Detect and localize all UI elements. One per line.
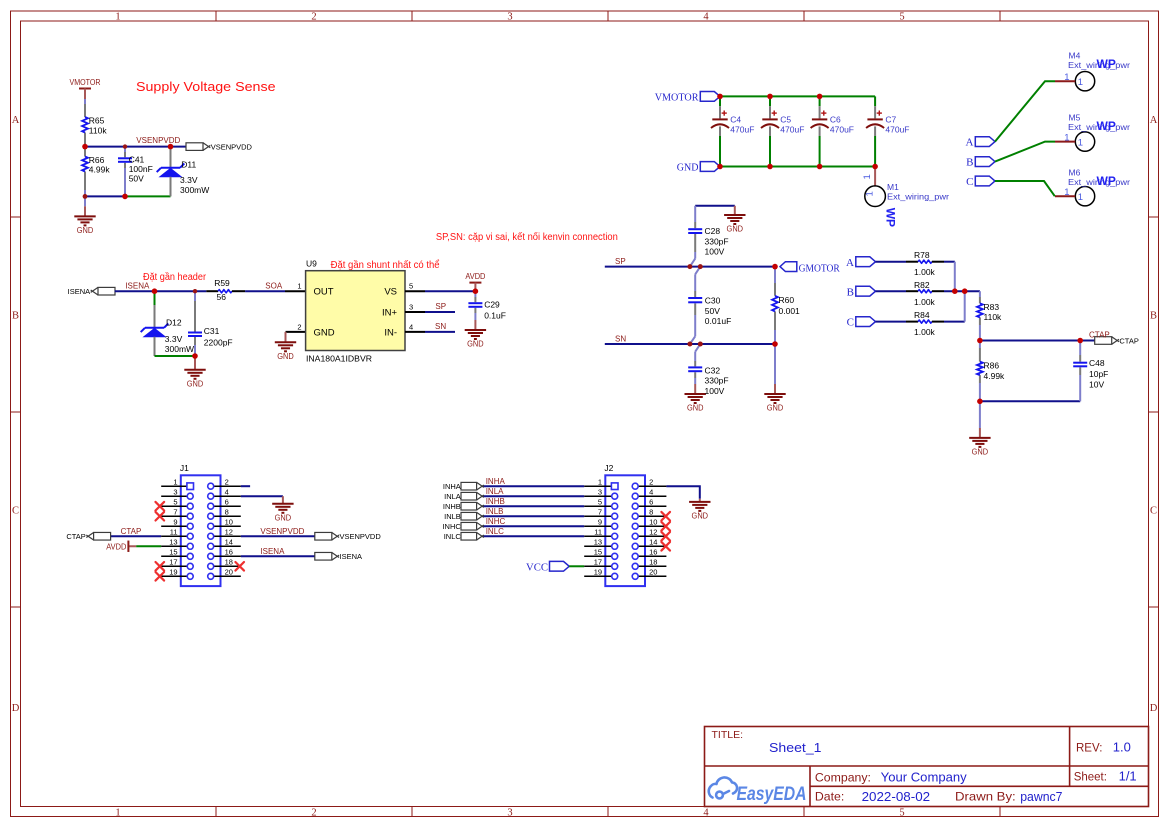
svg-text:14: 14 — [225, 537, 233, 546]
svg-text:INLB: INLB — [486, 507, 504, 516]
svg-text:1: 1 — [173, 477, 177, 486]
svg-text:10V: 10V — [1089, 379, 1104, 389]
svg-text:B: B — [966, 157, 973, 169]
svg-text:D11: D11 — [181, 160, 196, 170]
svg-text:1: 1 — [1078, 77, 1083, 88]
svg-text:ISENA: ISENA — [260, 547, 285, 556]
svg-text:19: 19 — [169, 567, 177, 576]
svg-text:INHB: INHB — [486, 497, 505, 506]
svg-text:470uF: 470uF — [885, 125, 909, 135]
svg-text:3: 3 — [598, 487, 602, 496]
svg-text:VSENPVDD: VSENPVDD — [340, 532, 382, 541]
svg-text:100V: 100V — [705, 386, 725, 396]
svg-text:330pF: 330pF — [705, 376, 729, 386]
svg-text:GND: GND — [972, 448, 989, 457]
svg-text:VCC: VCC — [526, 561, 548, 573]
svg-text:AVDD: AVDD — [465, 272, 485, 281]
svg-text:M1: M1 — [887, 182, 899, 192]
svg-text:INLC: INLC — [486, 527, 504, 536]
svg-text:C29: C29 — [484, 299, 500, 309]
svg-text:7: 7 — [598, 507, 602, 516]
svg-text:110k: 110k — [89, 125, 108, 135]
svg-text:Sheet:: Sheet: — [1074, 771, 1107, 783]
svg-text:ISENA: ISENA — [340, 552, 363, 561]
svg-text:3: 3 — [507, 807, 512, 818]
svg-text:11: 11 — [594, 527, 602, 536]
svg-text:15: 15 — [594, 547, 602, 556]
svg-text:GND: GND — [767, 404, 784, 413]
svg-text:INLC: INLC — [444, 532, 462, 541]
svg-text:R59: R59 — [214, 278, 230, 288]
svg-text:6: 6 — [225, 497, 229, 506]
svg-text:R66: R66 — [89, 155, 105, 165]
svg-text:ISENA: ISENA — [125, 282, 150, 291]
svg-text:VS: VS — [384, 287, 397, 298]
svg-text:R78: R78 — [914, 250, 930, 260]
svg-text:0.01uF: 0.01uF — [705, 316, 731, 326]
svg-text:12: 12 — [649, 527, 657, 536]
svg-text:C31: C31 — [204, 326, 220, 336]
svg-text:GND: GND — [687, 404, 704, 413]
svg-text:4: 4 — [649, 487, 653, 496]
svg-text:SP,SN: cặp vi sai, kết nối ken: SP,SN: cặp vi sai, kết nối kenvin connec… — [436, 231, 618, 243]
svg-text:INHA: INHA — [486, 477, 506, 486]
svg-text:AVDD: AVDD — [106, 543, 126, 552]
svg-text:GND: GND — [467, 340, 484, 349]
svg-text:19: 19 — [594, 567, 602, 576]
svg-text:TITLE:: TITLE: — [712, 729, 744, 741]
svg-text:4.99k: 4.99k — [89, 165, 111, 175]
svg-text:5: 5 — [409, 282, 413, 291]
svg-text:C: C — [966, 176, 973, 188]
svg-text:4: 4 — [409, 322, 413, 331]
svg-text:10: 10 — [225, 517, 233, 526]
svg-text:M6: M6 — [1069, 167, 1081, 177]
svg-text:Supply Voltage Sense: Supply Voltage Sense — [136, 79, 276, 94]
svg-text:2: 2 — [297, 322, 301, 331]
svg-text:J2: J2 — [604, 463, 613, 473]
svg-text:1: 1 — [297, 282, 301, 291]
svg-text:R83: R83 — [984, 302, 1000, 312]
svg-text:WP: WP — [884, 208, 898, 227]
svg-text:18: 18 — [649, 557, 657, 566]
svg-text:C: C — [1150, 505, 1157, 516]
svg-text:Sheet_1: Sheet_1 — [769, 741, 822, 755]
svg-text:R82: R82 — [914, 280, 930, 290]
svg-text:B: B — [12, 310, 19, 321]
svg-text:1/1: 1/1 — [1119, 768, 1137, 783]
svg-text:5: 5 — [899, 12, 904, 23]
svg-text:Ext_wiring_pwr: Ext_wiring_pwr — [887, 191, 949, 201]
svg-text:C41: C41 — [129, 154, 145, 164]
svg-text:3: 3 — [173, 487, 177, 496]
svg-text:20: 20 — [649, 567, 657, 576]
svg-text:R84: R84 — [914, 310, 930, 320]
svg-text:INLB: INLB — [444, 512, 461, 521]
svg-text:R65: R65 — [89, 116, 105, 126]
svg-text:470uF: 470uF — [730, 125, 754, 135]
svg-text:100nF: 100nF — [129, 164, 153, 174]
svg-text:3: 3 — [409, 302, 413, 311]
svg-text:1: 1 — [862, 174, 873, 179]
svg-text:5: 5 — [598, 497, 602, 506]
svg-text:2: 2 — [649, 477, 653, 486]
svg-text:M4: M4 — [1069, 51, 1081, 61]
svg-text:GND: GND — [187, 379, 204, 388]
svg-text:1.00k: 1.00k — [914, 297, 936, 307]
svg-text:ISENA: ISENA — [68, 287, 91, 296]
svg-text:WP: WP — [1097, 119, 1116, 133]
svg-text:0.1uF: 0.1uF — [484, 310, 506, 320]
svg-text:INA180A1IDBVR: INA180A1IDBVR — [306, 353, 372, 363]
svg-text:17: 17 — [169, 557, 177, 566]
svg-text:C6: C6 — [830, 114, 841, 124]
svg-text:Your Company: Your Company — [881, 771, 968, 785]
svg-text:1: 1 — [1078, 192, 1083, 203]
svg-text:SP: SP — [435, 302, 446, 311]
svg-text:WP: WP — [1097, 174, 1116, 188]
svg-text:1: 1 — [864, 191, 875, 196]
svg-text:10: 10 — [649, 517, 657, 526]
svg-text:WP: WP — [1097, 57, 1116, 71]
svg-text:1: 1 — [1078, 137, 1083, 148]
svg-text:2200pF: 2200pF — [204, 337, 233, 347]
svg-text:2: 2 — [311, 12, 316, 23]
svg-text:GND: GND — [677, 162, 699, 174]
svg-text:CTAP: CTAP — [1089, 331, 1110, 340]
svg-text:2022-08-02: 2022-08-02 — [862, 790, 931, 804]
svg-text:470uF: 470uF — [830, 125, 854, 135]
svg-text:A: A — [12, 115, 20, 126]
svg-text:U9: U9 — [306, 259, 317, 269]
svg-text:EasyEDA: EasyEDA — [737, 784, 807, 805]
svg-text:3.3V: 3.3V — [165, 334, 183, 344]
svg-text:2: 2 — [225, 477, 229, 486]
svg-text:8: 8 — [225, 507, 229, 516]
svg-text:16: 16 — [649, 547, 657, 556]
svg-text:470uF: 470uF — [780, 125, 804, 135]
svg-text:17: 17 — [594, 557, 602, 566]
svg-text:VMOTOR: VMOTOR — [70, 78, 101, 87]
svg-text:GND: GND — [314, 327, 335, 338]
svg-text:9: 9 — [173, 517, 177, 526]
svg-text:2: 2 — [311, 807, 316, 818]
svg-text:A: A — [966, 137, 974, 149]
svg-text:330pF: 330pF — [705, 236, 729, 246]
svg-text:11: 11 — [170, 527, 178, 536]
svg-text:SN: SN — [615, 335, 626, 344]
svg-text:VSENPVDD: VSENPVDD — [136, 136, 180, 145]
svg-text:4.99k: 4.99k — [984, 371, 1006, 381]
svg-text:OUT: OUT — [314, 287, 334, 298]
svg-text:IN-: IN- — [384, 327, 397, 338]
svg-text:C4: C4 — [730, 114, 741, 124]
svg-text:R86: R86 — [984, 361, 1000, 371]
svg-text:C32: C32 — [705, 365, 721, 375]
svg-text:18: 18 — [225, 557, 233, 566]
svg-text:CTAP: CTAP — [66, 532, 85, 541]
svg-text:GND: GND — [275, 513, 292, 522]
svg-text:1.00k: 1.00k — [914, 267, 936, 277]
svg-text:110k: 110k — [984, 312, 1003, 322]
svg-text:Company:: Company: — [815, 771, 871, 785]
svg-text:1: 1 — [115, 807, 120, 818]
svg-text:CTAP: CTAP — [1119, 336, 1138, 345]
svg-text:20: 20 — [225, 567, 233, 576]
svg-text:300mW: 300mW — [165, 344, 194, 354]
svg-text:6: 6 — [649, 497, 653, 506]
svg-text:C: C — [847, 317, 854, 329]
svg-text:5: 5 — [899, 807, 904, 818]
svg-text:4: 4 — [703, 12, 709, 23]
svg-text:D: D — [1150, 703, 1158, 714]
svg-text:REV:: REV: — [1076, 743, 1102, 755]
svg-text:15: 15 — [169, 547, 177, 556]
svg-text:GND: GND — [277, 352, 294, 361]
svg-text:CTAP: CTAP — [121, 527, 142, 536]
svg-text:100V: 100V — [705, 247, 725, 257]
svg-text:Đặt gần header: Đặt gần header — [143, 271, 207, 283]
svg-text:D12: D12 — [166, 317, 182, 327]
svg-text:SOA: SOA — [265, 281, 283, 290]
svg-text:C48: C48 — [1089, 358, 1105, 368]
svg-text:C7: C7 — [885, 114, 896, 124]
svg-text:14: 14 — [649, 537, 657, 546]
svg-text:C5: C5 — [780, 114, 791, 124]
svg-text:VSENPVDD: VSENPVDD — [211, 142, 253, 151]
svg-text:SN: SN — [435, 322, 446, 331]
svg-text:GND: GND — [727, 225, 744, 234]
svg-text:J1: J1 — [180, 463, 189, 473]
svg-text:D: D — [12, 703, 20, 714]
svg-text:INHA: INHA — [443, 482, 461, 491]
svg-text:A: A — [1150, 115, 1158, 126]
svg-text:1.0: 1.0 — [1113, 740, 1131, 755]
svg-text:16: 16 — [225, 547, 233, 556]
svg-text:INHC: INHC — [486, 517, 506, 526]
svg-text:VMOTOR: VMOTOR — [655, 92, 699, 104]
svg-text:1: 1 — [598, 477, 602, 486]
svg-text:GMOTOR: GMOTOR — [799, 262, 841, 274]
svg-text:Đặt gần shunt nhất có thể: Đặt gần shunt nhất có thể — [331, 259, 440, 271]
svg-text:1: 1 — [115, 12, 120, 23]
svg-text:Date:: Date: — [815, 790, 844, 804]
svg-text:300mW: 300mW — [180, 185, 209, 195]
svg-text:8: 8 — [649, 507, 653, 516]
svg-text:INHB: INHB — [443, 502, 461, 511]
svg-text:INHC: INHC — [442, 522, 461, 531]
svg-text:13: 13 — [594, 537, 602, 546]
svg-text:9: 9 — [598, 517, 602, 526]
svg-text:INLA: INLA — [444, 492, 461, 501]
svg-text:SP: SP — [615, 257, 626, 266]
svg-text:B: B — [847, 286, 854, 298]
svg-text:13: 13 — [169, 537, 177, 546]
svg-text:3.3V: 3.3V — [180, 175, 198, 185]
svg-text:5: 5 — [173, 497, 177, 506]
svg-text:A: A — [846, 257, 854, 269]
svg-text:Drawn By:: Drawn By: — [955, 790, 1016, 804]
svg-text:GND: GND — [77, 226, 94, 235]
svg-text:VSENPVDD: VSENPVDD — [260, 527, 304, 536]
svg-text:50V: 50V — [705, 306, 720, 316]
svg-text:INLA: INLA — [486, 487, 504, 496]
svg-text:0.001: 0.001 — [779, 306, 801, 316]
svg-text:B: B — [1150, 310, 1157, 321]
svg-text:GND: GND — [692, 512, 709, 521]
svg-text:IN+: IN+ — [382, 307, 398, 318]
svg-text:4: 4 — [225, 487, 229, 496]
svg-text:1.00k: 1.00k — [914, 327, 936, 337]
svg-text:56: 56 — [217, 292, 227, 302]
svg-text:R60: R60 — [779, 295, 795, 305]
svg-text:50V: 50V — [129, 174, 144, 184]
svg-text:3: 3 — [507, 12, 512, 23]
svg-text:10pF: 10pF — [1089, 369, 1108, 379]
svg-text:C: C — [12, 505, 19, 516]
svg-text:12: 12 — [225, 527, 233, 536]
svg-text:pawnc7: pawnc7 — [1020, 790, 1062, 804]
svg-text:4: 4 — [703, 807, 709, 818]
svg-text:C28: C28 — [705, 226, 721, 236]
svg-text:M5: M5 — [1069, 113, 1081, 123]
svg-text:7: 7 — [173, 507, 177, 516]
svg-text:C30: C30 — [705, 296, 721, 306]
